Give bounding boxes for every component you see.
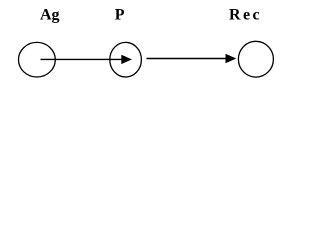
svg-text:Ag: Ag — [40, 7, 60, 24]
wire P to Rec — [147, 58, 227, 60]
node P (circle) — [110, 42, 142, 77]
arrowhead at Rec — [226, 54, 237, 63]
node Rec (circle) — [238, 41, 273, 77]
node Ag (circle) — [19, 42, 56, 77]
svg-text:P: P — [115, 7, 125, 24]
svg-text:Rec: Rec — [229, 7, 262, 24]
arrowhead at P — [121, 55, 132, 64]
wire Ag to P — [41, 58, 122, 60]
